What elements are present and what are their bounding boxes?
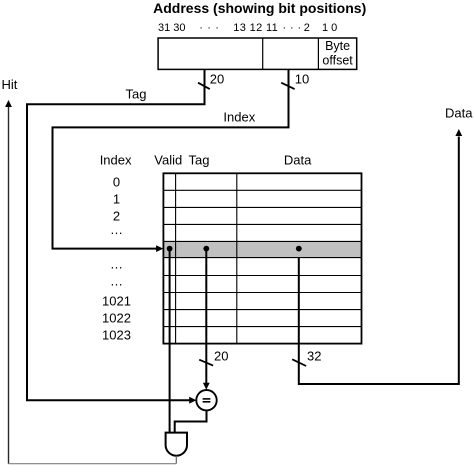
wire tag compare down — [205, 249, 207, 384]
svg-text:0: 0 — [113, 174, 120, 189]
address box — [158, 38, 357, 69]
arrow data up — [455, 129, 462, 136]
address box divider tag/index — [262, 38, 264, 69]
svg-text:offset: offset — [322, 53, 353, 67]
svg-text:Address (showing bit positions: Address (showing bit positions) — [153, 0, 366, 16]
svg-text:…: … — [110, 256, 123, 271]
arrow index into table — [156, 245, 163, 252]
svg-text:·: · — [215, 22, 219, 34]
svg-text:20: 20 — [210, 72, 224, 87]
wire valid down to AND — [169, 249, 171, 433]
comparator circle — [196, 390, 216, 410]
svg-text:1021: 1021 — [102, 294, 131, 309]
row labels — [102, 174, 131, 342]
svg-text:1022: 1022 — [102, 311, 131, 326]
arrow tag into comparator — [189, 397, 196, 404]
svg-text:·: · — [199, 22, 203, 34]
svg-text:·: · — [298, 22, 302, 34]
svg-text:Tag: Tag — [126, 87, 147, 102]
svg-text:Valid: Valid — [154, 153, 182, 168]
svg-text:Hit: Hit — [2, 77, 18, 92]
wire hit return (gray bottom) — [9, 463, 177, 465]
svg-text:13 12 11: 13 12 11 — [233, 22, 277, 34]
svg-text:·: · — [283, 22, 287, 34]
wire index from address box — [53, 69, 289, 248]
svg-text:32: 32 — [307, 349, 321, 364]
svg-text:1023: 1023 — [102, 328, 131, 343]
wire comparator output to AND — [175, 410, 207, 432]
svg-text:Data: Data — [445, 105, 473, 120]
svg-text:1 0: 1 0 — [322, 22, 337, 34]
svg-text:1: 1 — [113, 191, 120, 206]
cache table outer border — [163, 173, 361, 343]
AND gate — [166, 433, 187, 456]
svg-text:·: · — [207, 22, 211, 34]
highlighted row fill — [163, 241, 361, 257]
arrow hit up — [5, 100, 12, 107]
equals sign — [203, 398, 211, 400]
tick 20 below table — [199, 360, 213, 366]
svg-text:20: 20 — [214, 349, 228, 364]
svg-text:2: 2 — [113, 208, 120, 223]
svg-text:2: 2 — [304, 22, 310, 34]
svg-text:10: 10 — [295, 72, 309, 87]
wire data out — [299, 137, 459, 385]
junction dot valid — [167, 246, 173, 252]
junction dot tag — [203, 246, 209, 252]
column divider tag/data — [236, 173, 238, 343]
wire hit (left vertical) — [8, 107, 10, 464]
tick 20 on tag wire — [198, 83, 210, 89]
svg-text:Data: Data — [284, 153, 312, 168]
arrow tag into comparator top — [203, 383, 210, 390]
svg-text:Index: Index — [223, 110, 255, 125]
svg-text:31 30: 31 30 — [158, 22, 186, 34]
svg-text:…: … — [110, 222, 123, 237]
wire tag from address box — [27, 69, 205, 400]
wire AND output — [175, 456, 177, 464]
svg-text:Byte: Byte — [325, 39, 350, 53]
svg-text:Tag: Tag — [189, 153, 210, 168]
svg-text:Index: Index — [100, 153, 132, 168]
svg-text:·: · — [290, 22, 294, 34]
row lines — [163, 190, 361, 326]
tick 32 below table — [292, 359, 306, 366]
bit position labels — [158, 22, 337, 34]
junction dot data — [296, 246, 302, 252]
svg-text:…: … — [110, 273, 123, 288]
address box divider index/byte — [317, 38, 319, 69]
tick 10 on index wire — [281, 83, 294, 89]
column divider valid/tag — [175, 173, 177, 343]
